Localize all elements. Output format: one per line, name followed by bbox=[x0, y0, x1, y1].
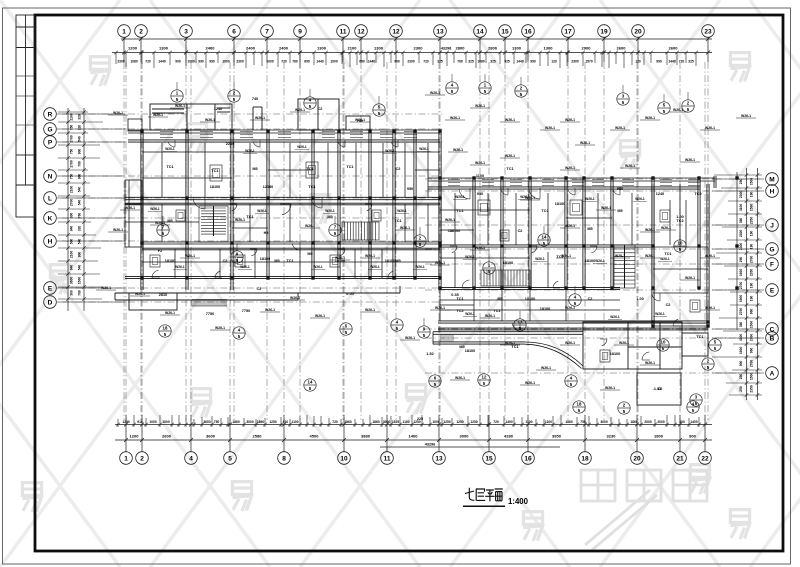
svg-text:760: 760 bbox=[457, 59, 463, 63]
svg-text:1500: 1500 bbox=[750, 178, 754, 186]
svg-text:W26-1: W26-1 bbox=[535, 257, 545, 261]
svg-text:W26-1: W26-1 bbox=[435, 306, 445, 310]
svg-text:W26-1: W26-1 bbox=[465, 312, 475, 316]
svg-text:3: 3 bbox=[184, 28, 188, 35]
svg-text:720: 720 bbox=[423, 59, 429, 63]
svg-text:W26-1: W26-1 bbox=[485, 314, 495, 318]
svg-text:W26-1: W26-1 bbox=[545, 126, 555, 130]
svg-text:13: 13 bbox=[518, 320, 523, 325]
svg-text:2700: 2700 bbox=[70, 160, 74, 168]
svg-text:2300: 2300 bbox=[236, 59, 244, 63]
svg-text:2700: 2700 bbox=[70, 199, 74, 207]
svg-text:1080: 1080 bbox=[187, 59, 195, 63]
svg-text:250: 250 bbox=[739, 257, 743, 263]
svg-text:TC1: TC1 bbox=[346, 165, 353, 169]
stair right 1 bbox=[614, 245, 635, 288]
svg-text:W26-1: W26-1 bbox=[215, 326, 225, 330]
svg-text:N: N bbox=[48, 173, 53, 180]
svg-text:2000: 2000 bbox=[644, 420, 652, 424]
svg-text:1400: 1400 bbox=[505, 420, 513, 424]
svg-text:1570: 1570 bbox=[585, 59, 593, 63]
svg-text:C2: C2 bbox=[318, 107, 323, 111]
svg-text:H: H bbox=[48, 238, 53, 245]
right building mid horizontal walls bbox=[440, 245, 653, 247]
svg-text:W26-1: W26-1 bbox=[645, 361, 655, 365]
svg-text:13: 13 bbox=[435, 455, 443, 462]
svg-text:W26-1: W26-1 bbox=[419, 147, 429, 151]
top dimension block bbox=[112, 37, 712, 62]
svg-text:23: 23 bbox=[704, 28, 712, 35]
left building doors bbox=[193, 197, 205, 209]
svg-text:1:400: 1:400 bbox=[508, 497, 529, 506]
svg-text:1: 1 bbox=[122, 28, 126, 35]
svg-text:15: 15 bbox=[501, 28, 509, 35]
svg-text:W26-1: W26-1 bbox=[615, 254, 625, 258]
svg-text:W26-1: W26-1 bbox=[257, 209, 267, 213]
svg-text:W26-1: W26-1 bbox=[565, 166, 575, 170]
svg-text:990: 990 bbox=[209, 59, 215, 63]
column symbols bbox=[140, 129, 738, 327]
horizontal dash-dot grid lines bbox=[62, 114, 760, 373]
svg-text:2300: 2300 bbox=[739, 243, 743, 251]
bottom axis bubbles bbox=[120, 452, 712, 465]
walkway hatch bbox=[441, 335, 453, 342]
svg-text:W26-1: W26-1 bbox=[475, 161, 485, 165]
svg-text:W26-1: W26-1 bbox=[525, 196, 535, 200]
svg-text:2800: 2800 bbox=[488, 46, 498, 51]
svg-text:540: 540 bbox=[78, 265, 82, 271]
svg-text:1250: 1250 bbox=[443, 420, 451, 424]
right dimension block bbox=[737, 168, 758, 400]
svg-text:M5: M5 bbox=[497, 297, 502, 301]
svg-text:2700: 2700 bbox=[70, 135, 74, 143]
svg-text:W26-1: W26-1 bbox=[365, 308, 375, 312]
svg-text:18100: 18100 bbox=[585, 259, 596, 263]
svg-text:M5: M5 bbox=[252, 167, 257, 171]
svg-text:L: L bbox=[48, 195, 52, 202]
svg-text:1: 1 bbox=[124, 455, 128, 462]
svg-text:1525: 1525 bbox=[392, 420, 400, 424]
svg-text:W26-1: W26-1 bbox=[295, 108, 305, 112]
svg-text:W26-1: W26-1 bbox=[741, 114, 751, 118]
svg-text:1250: 1250 bbox=[470, 420, 478, 424]
svg-text:1860: 1860 bbox=[232, 420, 240, 424]
svg-text:C2: C2 bbox=[518, 229, 523, 233]
svg-text:3950: 3950 bbox=[552, 434, 562, 439]
svg-text:W26-1: W26-1 bbox=[445, 218, 455, 222]
svg-text:950: 950 bbox=[477, 192, 483, 196]
svg-text:250: 250 bbox=[739, 179, 743, 185]
svg-text:W26-1: W26-1 bbox=[475, 246, 485, 250]
svg-text:910: 910 bbox=[137, 420, 143, 424]
svg-text:1800: 1800 bbox=[654, 434, 664, 439]
svg-text:2300: 2300 bbox=[414, 46, 424, 51]
svg-text:W26-1: W26-1 bbox=[645, 116, 655, 120]
svg-text:J: J bbox=[770, 222, 774, 229]
svg-text:12: 12 bbox=[392, 28, 400, 35]
svg-text:TC2: TC2 bbox=[676, 219, 683, 223]
svg-text:TC1: TC1 bbox=[456, 209, 463, 213]
svg-text:1240: 1240 bbox=[214, 107, 222, 111]
right building vertical walls bbox=[439, 178, 441, 288]
svg-text:1080: 1080 bbox=[477, 59, 485, 63]
svg-text:900: 900 bbox=[689, 434, 696, 439]
svg-text:20: 20 bbox=[634, 28, 642, 35]
svg-text:18100: 18100 bbox=[165, 259, 176, 263]
svg-text:16: 16 bbox=[524, 28, 532, 35]
svg-text:TC1: TC1 bbox=[308, 185, 315, 189]
svg-text:2700: 2700 bbox=[750, 334, 754, 342]
svg-text:12: 12 bbox=[482, 375, 487, 380]
svg-text:1250: 1250 bbox=[269, 420, 277, 424]
svg-text:W26-1: W26-1 bbox=[705, 306, 715, 310]
svg-text:18: 18 bbox=[581, 455, 589, 462]
watermark big logo bottom right bbox=[581, 470, 707, 550]
svg-text:TC1: TC1 bbox=[394, 219, 401, 223]
svg-text:2300: 2300 bbox=[117, 59, 125, 63]
svg-text:3600: 3600 bbox=[206, 434, 216, 439]
svg-text:1440: 1440 bbox=[516, 59, 524, 63]
svg-text:H5: H5 bbox=[264, 231, 269, 235]
svg-text:M5: M5 bbox=[617, 209, 622, 213]
svg-text:1100: 1100 bbox=[545, 420, 552, 424]
svg-text:TC1: TC1 bbox=[506, 167, 513, 171]
svg-text:7750: 7750 bbox=[242, 309, 250, 313]
svg-text:W26-1: W26-1 bbox=[135, 292, 145, 296]
svg-text:2: 2 bbox=[139, 28, 143, 35]
svg-text:W26-1: W26-1 bbox=[101, 286, 111, 290]
svg-text:380: 380 bbox=[739, 322, 743, 328]
svg-text:3880: 3880 bbox=[361, 434, 371, 439]
svg-text:300: 300 bbox=[70, 213, 74, 219]
svg-text:2580: 2580 bbox=[253, 434, 263, 439]
svg-text:W26-1: W26-1 bbox=[305, 224, 315, 228]
svg-text:1.52: 1.52 bbox=[426, 352, 433, 356]
svg-text:1400: 1400 bbox=[690, 420, 698, 424]
svg-text:2300: 2300 bbox=[739, 191, 743, 199]
svg-text:2100: 2100 bbox=[70, 251, 74, 259]
svg-text:760: 760 bbox=[78, 161, 82, 167]
svg-text:21: 21 bbox=[676, 455, 684, 462]
svg-text:W26-1: W26-1 bbox=[601, 206, 611, 210]
svg-text:540: 540 bbox=[78, 200, 82, 206]
svg-text:W26-1: W26-1 bbox=[610, 315, 620, 319]
svg-text:2100: 2100 bbox=[348, 46, 358, 51]
svg-text:F2: F2 bbox=[158, 249, 162, 253]
svg-text:325: 325 bbox=[490, 59, 496, 63]
left dimension block bbox=[68, 108, 84, 311]
svg-text:18: 18 bbox=[163, 326, 168, 331]
svg-text:W26-1: W26-1 bbox=[585, 197, 595, 201]
svg-text:1900: 1900 bbox=[739, 295, 743, 303]
svg-text:W26-1: W26-1 bbox=[325, 209, 335, 213]
svg-text:190: 190 bbox=[750, 231, 754, 237]
svg-text:1100: 1100 bbox=[402, 420, 409, 424]
svg-text:910: 910 bbox=[283, 420, 289, 424]
svg-text:1300: 1300 bbox=[317, 46, 327, 51]
svg-text:W26-1: W26-1 bbox=[400, 226, 410, 230]
svg-text:M5: M5 bbox=[274, 259, 279, 263]
svg-text:E: E bbox=[770, 287, 775, 294]
svg-text:1000: 1000 bbox=[266, 59, 274, 63]
right axis bubbles bbox=[766, 173, 779, 380]
svg-text:18100: 18100 bbox=[465, 349, 476, 353]
svg-text:W26-1: W26-1 bbox=[113, 228, 123, 232]
svg-text:TC2: TC2 bbox=[694, 192, 701, 196]
svg-text:W26-1: W26-1 bbox=[405, 336, 415, 340]
left annex balcony bbox=[125, 119, 142, 247]
svg-text:225: 225 bbox=[417, 417, 423, 421]
svg-text:W26-1: W26-1 bbox=[153, 113, 163, 117]
svg-text:W26-1: W26-1 bbox=[255, 116, 265, 120]
svg-text:W26-1: W26-1 bbox=[397, 209, 407, 213]
svg-text:190: 190 bbox=[750, 283, 754, 289]
svg-text:M5: M5 bbox=[327, 215, 332, 219]
svg-text:W26-1: W26-1 bbox=[415, 265, 425, 269]
svg-text:1200: 1200 bbox=[130, 434, 140, 439]
svg-text:W26-1: W26-1 bbox=[705, 254, 715, 258]
svg-text:325: 325 bbox=[688, 59, 694, 63]
svg-text:1600: 1600 bbox=[739, 347, 743, 355]
svg-text:1000: 1000 bbox=[149, 420, 157, 424]
svg-text:TC1: TC1 bbox=[166, 165, 173, 169]
svg-text:500: 500 bbox=[70, 239, 74, 245]
right building fixtures bbox=[478, 200, 490, 215]
svg-text:2350: 2350 bbox=[750, 385, 754, 393]
svg-text:W26-1: W26-1 bbox=[655, 312, 665, 316]
left axis bubbles bbox=[44, 108, 57, 309]
svg-text:D: D bbox=[48, 299, 53, 306]
svg-text:1100: 1100 bbox=[525, 420, 532, 424]
svg-text:380: 380 bbox=[739, 218, 743, 224]
svg-text:1860: 1860 bbox=[630, 420, 638, 424]
svg-text:320: 320 bbox=[78, 114, 82, 120]
svg-text:15: 15 bbox=[485, 455, 493, 462]
svg-text:1100: 1100 bbox=[476, 174, 484, 178]
svg-text:2350: 2350 bbox=[750, 217, 754, 225]
svg-text:10: 10 bbox=[678, 241, 683, 246]
svg-text:W26-1: W26-1 bbox=[525, 381, 535, 385]
svg-text:190: 190 bbox=[750, 192, 754, 198]
left bottom hatch strip bbox=[192, 300, 227, 307]
bottom dimension block bbox=[115, 415, 712, 452]
right building interior partitions bbox=[440, 193, 686, 310]
svg-text:C2: C2 bbox=[396, 167, 401, 171]
svg-text:W26-1: W26-1 bbox=[113, 111, 123, 115]
svg-text:1860: 1860 bbox=[372, 420, 380, 424]
stair left 2 bbox=[342, 222, 379, 240]
svg-text:2600: 2600 bbox=[162, 434, 172, 439]
svg-text:W26-1: W26-1 bbox=[661, 226, 671, 230]
svg-text:1300: 1300 bbox=[374, 46, 384, 51]
svg-text:W26-1: W26-1 bbox=[313, 265, 323, 269]
svg-text:18100: 18100 bbox=[610, 352, 621, 356]
svg-text:1000: 1000 bbox=[330, 59, 338, 63]
svg-text:1560: 1560 bbox=[78, 277, 82, 285]
svg-text:14: 14 bbox=[542, 235, 547, 240]
svg-text:TC1: TC1 bbox=[246, 215, 253, 219]
svg-text:1600: 1600 bbox=[739, 269, 743, 277]
svg-text:250: 250 bbox=[739, 374, 743, 380]
vertical dash-dot grid lines bbox=[124, 62, 708, 420]
svg-text:TC2: TC2 bbox=[456, 309, 463, 313]
svg-text:120: 120 bbox=[635, 59, 641, 63]
svg-text:22: 22 bbox=[701, 455, 709, 462]
svg-text:W26-1: W26-1 bbox=[685, 158, 695, 162]
svg-text:325: 325 bbox=[468, 59, 474, 63]
right building third row partitions bbox=[440, 288, 566, 321]
svg-text:16: 16 bbox=[524, 455, 532, 462]
svg-text:300: 300 bbox=[70, 290, 74, 296]
svg-text:4100: 4100 bbox=[739, 334, 743, 342]
svg-text:1300: 1300 bbox=[512, 46, 522, 51]
svg-text:900: 900 bbox=[739, 361, 743, 367]
svg-text:960: 960 bbox=[750, 309, 754, 315]
svg-text:750: 750 bbox=[214, 420, 220, 424]
svg-text:720: 720 bbox=[145, 59, 151, 63]
svg-text:720: 720 bbox=[679, 59, 685, 63]
svg-text:6: 6 bbox=[232, 28, 236, 35]
svg-text:990: 990 bbox=[198, 59, 204, 63]
svg-text:B: B bbox=[770, 335, 775, 342]
svg-text:18100: 18100 bbox=[540, 307, 551, 311]
svg-text:1400: 1400 bbox=[409, 434, 419, 439]
svg-text:W26-1: W26-1 bbox=[450, 116, 460, 120]
svg-text:11: 11 bbox=[340, 28, 347, 35]
svg-text:690: 690 bbox=[304, 59, 310, 63]
svg-text:W26-1: W26-1 bbox=[625, 164, 635, 168]
svg-text:W26-1: W26-1 bbox=[365, 254, 375, 258]
svg-text:TC1: TC1 bbox=[696, 335, 703, 339]
detail callout bubbles bbox=[157, 82, 721, 414]
svg-text:2100: 2100 bbox=[70, 186, 74, 194]
svg-text:2600: 2600 bbox=[669, 46, 679, 51]
svg-text:TC1: TC1 bbox=[493, 309, 500, 313]
left building mid horizontal walls bbox=[125, 197, 440, 199]
svg-text:TC1: TC1 bbox=[211, 169, 218, 173]
svg-text:W26-1: W26-1 bbox=[175, 104, 185, 108]
callout leaders bbox=[163, 74, 688, 326]
svg-text:C2: C2 bbox=[666, 303, 671, 307]
svg-text:C2: C2 bbox=[223, 259, 228, 263]
svg-text:720: 720 bbox=[281, 59, 287, 63]
svg-text:8: 8 bbox=[282, 455, 286, 462]
svg-text:750: 750 bbox=[70, 174, 74, 180]
svg-text:W26-1: W26-1 bbox=[565, 224, 575, 228]
svg-text:950: 950 bbox=[617, 187, 623, 191]
stair right 2 bbox=[481, 270, 530, 286]
svg-text:2400: 2400 bbox=[206, 46, 216, 51]
svg-text:W26-1: W26-1 bbox=[235, 218, 245, 222]
svg-text:900: 900 bbox=[175, 59, 181, 63]
svg-text:1860: 1860 bbox=[257, 420, 265, 424]
svg-text:760: 760 bbox=[292, 59, 298, 63]
svg-text:2700: 2700 bbox=[750, 360, 754, 368]
svg-text:20: 20 bbox=[633, 455, 641, 462]
stair left 1 bbox=[199, 206, 228, 242]
svg-text:3000: 3000 bbox=[383, 420, 391, 424]
svg-text:4100: 4100 bbox=[739, 204, 743, 212]
svg-text:13: 13 bbox=[436, 28, 444, 35]
svg-text:990: 990 bbox=[656, 59, 662, 63]
svg-text:7: 7 bbox=[265, 28, 269, 35]
svg-text:940: 940 bbox=[70, 265, 74, 271]
svg-text:12180: 12180 bbox=[263, 185, 274, 189]
svg-text:W26-1: W26-1 bbox=[475, 104, 485, 108]
svg-text:W26-1: W26-1 bbox=[370, 265, 380, 269]
right lower walkway walls bbox=[433, 332, 583, 335]
svg-text:W26-1: W26-1 bbox=[455, 195, 465, 199]
svg-text:C2: C2 bbox=[257, 287, 262, 291]
svg-text:18100: 18100 bbox=[525, 297, 536, 301]
svg-text:2700: 2700 bbox=[750, 256, 754, 264]
svg-text:1000: 1000 bbox=[222, 59, 230, 63]
right lower wing block walls bbox=[583, 322, 708, 405]
svg-text:120: 120 bbox=[551, 59, 557, 63]
svg-text:750: 750 bbox=[70, 149, 74, 155]
svg-text:A: A bbox=[770, 370, 775, 377]
top axis bubbles bbox=[118, 25, 715, 38]
svg-text:M5: M5 bbox=[167, 219, 172, 223]
svg-text:W26-1: W26-1 bbox=[455, 376, 465, 380]
svg-text:18100: 18100 bbox=[260, 257, 271, 261]
svg-text:W26-1: W26-1 bbox=[185, 254, 195, 258]
svg-text:11: 11 bbox=[384, 455, 391, 462]
svg-text:325: 325 bbox=[504, 59, 510, 63]
drawing title qi ceng ping mian bbox=[465, 488, 503, 502]
svg-text:W26-1: W26-1 bbox=[565, 306, 575, 310]
svg-text:TC1: TC1 bbox=[664, 252, 671, 256]
svg-text:4280: 4280 bbox=[504, 434, 514, 439]
svg-text:3230: 3230 bbox=[607, 434, 617, 439]
svg-text:W26-1: W26-1 bbox=[615, 126, 625, 130]
svg-text:1.00: 1.00 bbox=[636, 297, 643, 301]
svg-text:900: 900 bbox=[78, 174, 82, 180]
svg-text:43298: 43298 bbox=[441, 47, 452, 51]
svg-text:W26-1: W26-1 bbox=[205, 118, 215, 122]
svg-text:W26-1: W26-1 bbox=[385, 149, 395, 153]
svg-text:17: 17 bbox=[564, 28, 572, 35]
svg-text:720: 720 bbox=[493, 420, 499, 424]
svg-text:W26-1: W26-1 bbox=[240, 265, 250, 269]
svg-text:900: 900 bbox=[78, 252, 82, 258]
svg-text:960: 960 bbox=[750, 348, 754, 354]
right far block walls bbox=[652, 184, 654, 326]
svg-text:14: 14 bbox=[308, 380, 313, 385]
svg-text:1860: 1860 bbox=[565, 420, 573, 424]
svg-text:1500: 1500 bbox=[750, 204, 754, 212]
svg-text:R: R bbox=[48, 111, 53, 118]
svg-text:K: K bbox=[48, 215, 53, 222]
svg-text:540: 540 bbox=[78, 187, 82, 193]
svg-text:2400: 2400 bbox=[246, 46, 256, 51]
svg-text:1440: 1440 bbox=[668, 59, 676, 63]
svg-text:740: 740 bbox=[252, 97, 258, 101]
svg-text:W26-1: W26-1 bbox=[505, 154, 515, 158]
svg-text:W26-1: W26-1 bbox=[565, 341, 575, 345]
svg-text:H: H bbox=[770, 188, 775, 195]
svg-text:W26-1: W26-1 bbox=[290, 296, 300, 300]
svg-text:W26-1: W26-1 bbox=[505, 118, 515, 122]
title underline bbox=[463, 505, 505, 507]
title block strip bbox=[16, 15, 35, 217]
svg-text:1240: 1240 bbox=[656, 192, 664, 196]
svg-text:M5: M5 bbox=[587, 227, 592, 231]
svg-text:4500: 4500 bbox=[310, 434, 320, 439]
svg-text:690: 690 bbox=[359, 59, 365, 63]
svg-text:7750: 7750 bbox=[206, 312, 214, 316]
svg-text:TC1: TC1 bbox=[306, 167, 313, 171]
